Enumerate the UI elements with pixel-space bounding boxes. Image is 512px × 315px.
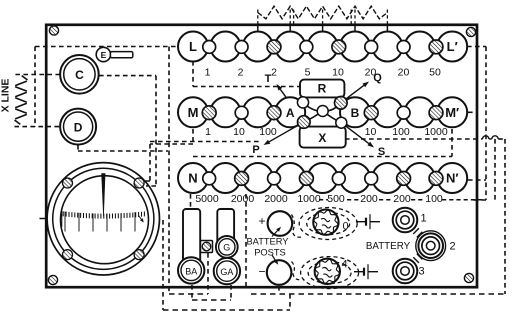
svg-text:3: 3 [418,266,424,278]
svg-text:X: X [318,131,326,145]
svg-text:200: 200 [360,193,378,205]
svg-text:E: E [101,50,107,60]
svg-text:500: 500 [327,193,345,205]
svg-text:M: M [188,105,199,120]
svg-text:BATTERY: BATTERY [366,241,411,252]
svg-text:1000: 1000 [297,193,321,205]
svg-text:50: 50 [429,67,441,79]
svg-text:L′: L′ [447,39,458,54]
svg-text:+: + [258,214,265,228]
svg-text:4: 4 [341,259,347,271]
svg-text:5000: 5000 [195,193,219,205]
svg-text:B: B [351,106,360,120]
svg-text:POSTS: POSTS [254,248,286,258]
svg-text:100: 100 [425,193,443,205]
svg-text:GA: GA [220,267,233,277]
svg-text:C: C [75,68,84,82]
svg-text:200: 200 [393,193,411,205]
svg-text:2: 2 [271,67,277,79]
svg-text:−: − [258,265,265,279]
svg-text:1000: 1000 [424,126,448,138]
svg-text:10: 10 [332,67,344,79]
svg-text:1: 1 [420,213,426,225]
svg-text:0: 0 [342,221,348,233]
svg-text:M′: M′ [445,105,459,120]
svg-text:2: 2 [238,67,244,79]
svg-text:Q: Q [373,72,382,84]
svg-text:2000: 2000 [264,193,288,205]
svg-text:T: T [265,73,272,85]
svg-text:X LINE: X LINE [0,79,12,113]
svg-text:10: 10 [365,126,377,138]
svg-text:R: R [318,81,327,95]
svg-text:100: 100 [392,126,410,138]
svg-text:L: L [189,39,197,54]
svg-text:2000: 2000 [231,193,255,205]
svg-text:20: 20 [398,67,410,79]
svg-text:1: 1 [205,126,211,138]
svg-text:G: G [223,243,230,253]
svg-text:1: 1 [205,67,211,79]
svg-text:BA: BA [185,266,197,276]
svg-text:P: P [252,144,259,156]
svg-text:10: 10 [233,126,245,138]
svg-text:N′: N′ [446,171,459,186]
svg-text:5: 5 [305,67,311,79]
svg-text:BATTERY: BATTERY [246,237,288,247]
svg-text:2: 2 [449,241,455,253]
svg-text:D: D [74,120,83,134]
svg-text:S: S [378,146,385,158]
svg-text:A: A [286,106,295,120]
svg-text:100: 100 [259,126,277,138]
svg-text:N: N [188,171,197,186]
